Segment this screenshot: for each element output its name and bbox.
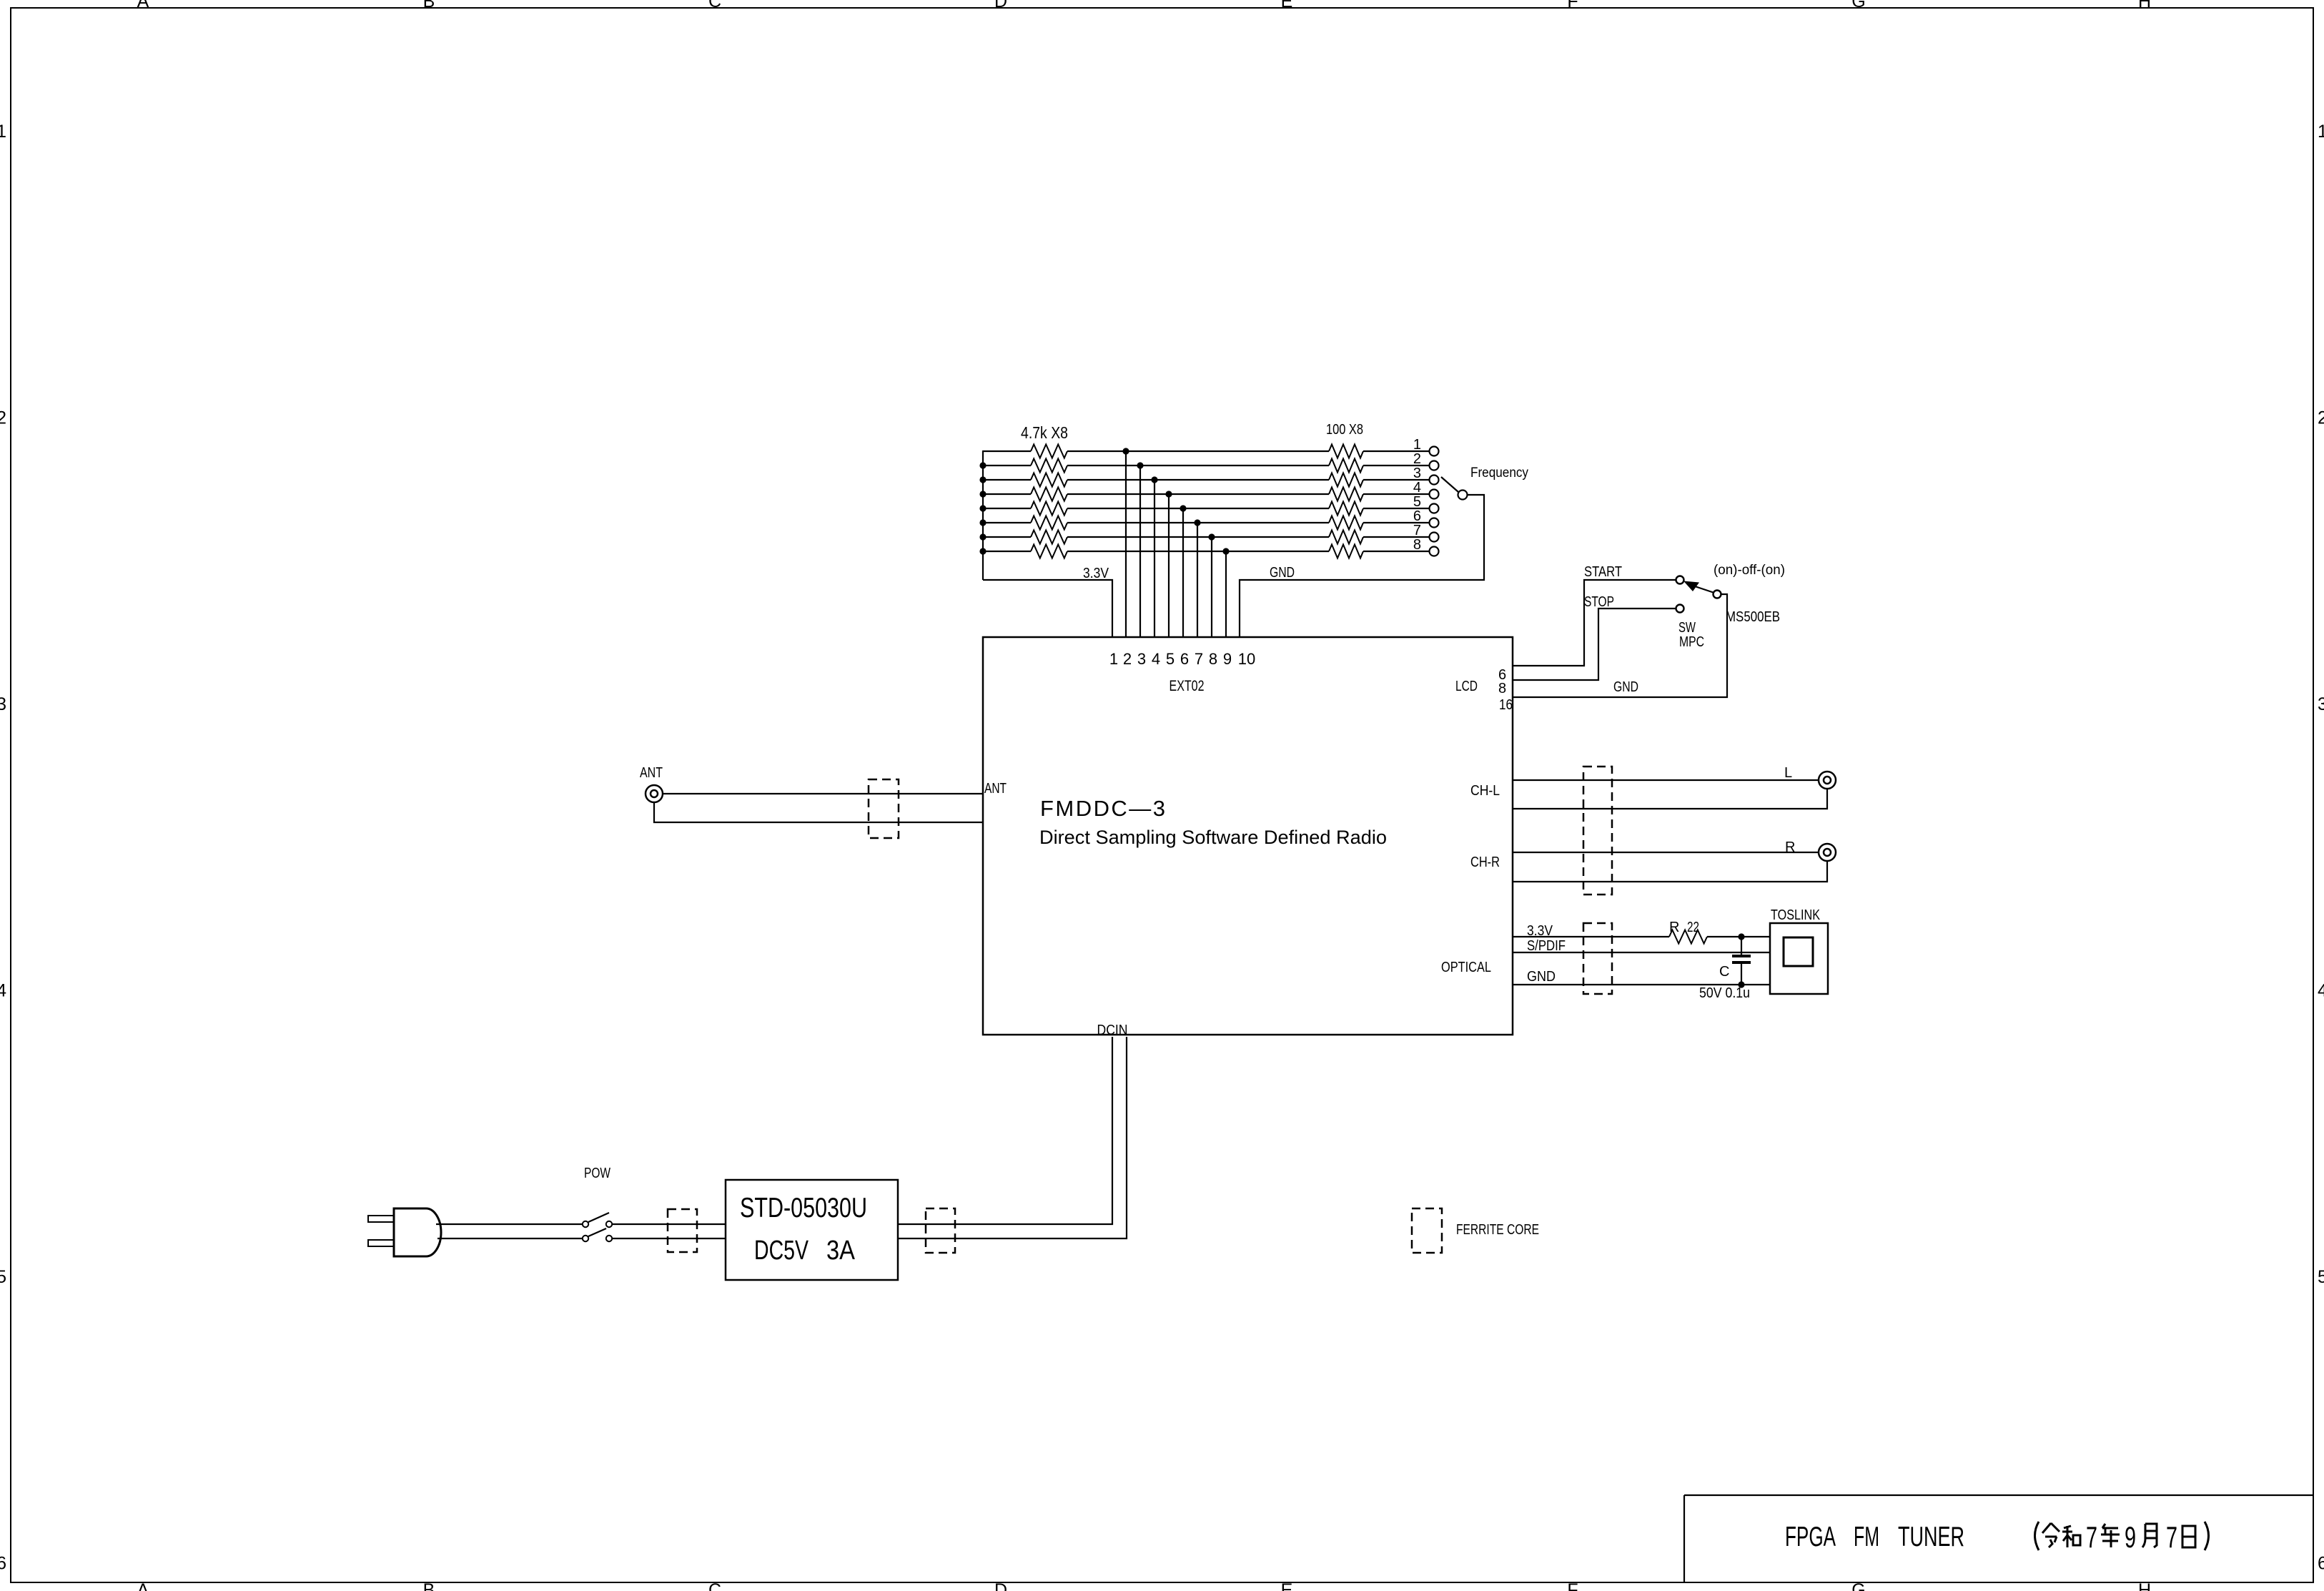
svg-text:4: 4 [0,981,6,1001]
wire row 1 middle [1067,450,1329,452]
wire row 5 middle [1067,508,1329,509]
switch SW3 POW pole1 [583,1213,612,1227]
label GND optical [1527,969,1556,985]
svg-text:GND: GND [1270,565,1295,581]
switch contact 6 circle [1430,518,1439,528]
wire GND EXT02 pin 10 to rotary common [1240,495,1484,637]
label START [1584,564,1622,580]
switch contact 1 circle [1430,447,1439,456]
svg-text:F: F [1567,1580,1578,1591]
svg-text:8: 8 [1209,650,1217,668]
label contact 4 [1413,480,1421,496]
svg-text:1: 1 [1109,650,1118,668]
svg-text:SW: SW [1678,620,1696,636]
label 50V 0.1u [1699,985,1750,1001]
resistor 100 #8 [1329,545,1363,558]
label R [1785,839,1795,855]
svg-text:FERRITE CORE: FERRITE CORE [1456,1222,1539,1238]
svg-text:10: 10 [1238,650,1255,668]
svg-text:MS500EB: MS500EB [1726,609,1780,625]
svg-text:3.3V: 3.3V [1527,923,1553,939]
svg-text:2: 2 [2318,408,2324,428]
wire row 3 right lead [1363,479,1430,481]
svg-text:B: B [423,0,435,11]
wire EXT02 pin 9 vertical [1225,551,1227,637]
svg-text:E: E [1281,0,1293,11]
wire row 3 left lead [983,479,1031,481]
svg-text:D: D [994,0,1007,11]
svg-text:3: 3 [1137,650,1146,668]
svg-text:CH-R: CH-R [1470,854,1500,870]
svg-text:H: H [2138,1580,2151,1591]
switch SW2 lever and arrow [1683,581,1721,599]
label EXT02 [1170,678,1205,694]
label L [1784,765,1792,781]
junction dots on 3.3V bus [979,462,986,554]
label 3.3V optical [1527,923,1553,939]
svg-text:R: R [1785,839,1795,855]
svg-text:L: L [1784,765,1792,781]
wire LCD6 to START [1513,580,1676,666]
wire row 4 right lead [1363,493,1430,495]
svg-text:D: D [994,1580,1007,1591]
wire row 6 right lead [1363,522,1430,523]
svg-text:Direct Sampling Software Defin: Direct Sampling Software Defined Radio [1039,827,1387,848]
wire ANT signal [663,793,983,794]
connector J1 ANT jack [646,785,663,802]
label pin OPTICAL [1441,960,1491,975]
svg-text:F: F [1567,0,1578,11]
wire row 5 right lead [1363,508,1430,509]
wire EXT02 pin 5 vertical [1168,494,1170,637]
svg-text:H: H [2138,0,2151,11]
module U1 FMDDC-3 box [983,637,1513,1035]
svg-text:7: 7 [2166,1520,2177,1554]
wire row 6 left lead [983,522,1031,523]
wire 3.3V bus vertical [982,450,984,580]
svg-text:DC5V: DC5V [754,1236,809,1266]
label Direct Sampling Software Defined Radio [1039,827,1387,848]
switch contact 7 circle [1430,533,1439,542]
svg-text:OPTICAL: OPTICAL [1441,960,1491,975]
label pin CH-L [1470,783,1500,799]
svg-text:1: 1 [0,122,6,142]
switch contact 8 circle [1430,547,1439,556]
svg-text:6: 6 [1413,508,1421,524]
resistor 4.7k #8 [1031,545,1067,558]
label Frequency [1470,466,1528,481]
resistor 4.7k #2 [1031,459,1067,473]
svg-text:STD-05030U: STD-05030U [740,1193,867,1223]
ferrite core audio [1583,767,1612,895]
resistor 4.7k #6 [1031,516,1067,530]
label C [1719,964,1729,980]
resistor 100 #5 [1329,502,1363,516]
junction node row 1 [1122,448,1129,454]
svg-text:B: B [423,1580,435,1591]
label LCD pin 6 [1498,667,1506,683]
svg-text:5: 5 [1166,650,1175,668]
svg-text:S/PDIF: S/PDIF [1527,938,1566,954]
wire LCD16 GND to switch common [1513,594,1727,697]
label pin LCD [1455,679,1478,694]
wire EXT02 pin 8 vertical [1211,537,1212,637]
svg-text:2: 2 [1413,451,1421,467]
svg-text:ANT: ANT [640,765,663,781]
junction node 3.3V cap [1738,933,1744,940]
label contact 6 [1413,508,1421,524]
connector J3 R jack [1819,844,1836,861]
label STD-05030U [740,1193,867,1223]
svg-text:CH-L: CH-L [1470,783,1500,799]
label EXT02 pin numbers 1-10 [1109,650,1255,668]
wire EXT02 pin 4 vertical [1154,480,1155,637]
wire row 5 left lead [983,508,1031,509]
label contact 8 [1413,537,1421,553]
wire row 8 left lead [983,551,1031,552]
svg-text:Frequency: Frequency [1470,466,1528,481]
label ANT connector [640,765,663,781]
label FERRITE CORE [1456,1222,1539,1238]
switch contact 4 circle [1430,490,1439,499]
connector P1 AC plug [368,1208,441,1256]
svg-text:9: 9 [1223,650,1232,668]
label date (Reiwa 7-9-7) [2035,1520,2209,1554]
capacitor C 50V 0.1u [1732,937,1751,985]
label (on)-off-(on) [1714,563,1785,578]
svg-text:22: 22 [1687,920,1699,935]
switch contact 3 circle [1430,476,1439,485]
label pin CH-R [1470,854,1500,870]
svg-text:6: 6 [1180,650,1189,668]
svg-text:16: 16 [1499,697,1513,713]
wire 3.3V to EXT02 pin 1 [983,580,1112,637]
svg-text:FMDDC—3: FMDDC—3 [1040,796,1165,821]
wire 3.3V optical left [1513,936,1669,937]
wire row 8 right lead [1363,551,1430,552]
svg-text:6: 6 [2318,1554,2324,1574]
wire row 8 middle [1067,551,1329,552]
label DC5V 3A [754,1236,856,1266]
label contact 2 [1413,451,1421,467]
svg-text:R: R [1669,920,1679,935]
junction node row 8 [1222,548,1229,554]
wire CH-R signal [1513,852,1819,853]
svg-text:MPC: MPC [1679,634,1704,650]
svg-text:2: 2 [0,408,6,428]
label STOP [1584,594,1614,610]
svg-text:1: 1 [1413,437,1421,453]
svg-text:C: C [708,0,721,11]
svg-text:FPGA: FPGA [1785,1522,1836,1552]
wire DC5V minus [898,1037,1127,1238]
svg-text:ANT: ANT [984,781,1007,797]
resistor 4.7k #7 [1031,531,1067,544]
label contact 7 [1413,523,1421,538]
junction node row 2 [1137,462,1143,468]
wire row 2 middle [1067,465,1329,466]
svg-text:3.3V: 3.3V [1083,566,1109,581]
label SW MPC [1678,620,1704,650]
svg-text:3: 3 [2318,694,2324,714]
switch SW3 POW pole2 [583,1228,612,1241]
switch contact 2 circle [1430,461,1439,471]
svg-text:5: 5 [1413,494,1421,510]
label pin DCIN [1097,1023,1128,1038]
junction node row 7 [1208,533,1215,540]
svg-text:4: 4 [2318,981,2324,1001]
label GND switch [1613,679,1638,695]
rotary switch SW1 wiper [1441,477,1468,500]
svg-text:9: 9 [2125,1520,2136,1554]
svg-text:LCD: LCD [1455,679,1478,694]
resistor R 22 [1669,930,1707,944]
label pin ANT [984,781,1007,797]
wire row 6 middle [1067,522,1329,523]
wire row 1 right lead [1363,450,1430,452]
svg-text:A: A [137,1580,149,1591]
label R 22 [1669,920,1699,935]
wire row 7 middle [1067,536,1329,538]
junction node GND cap [1738,981,1744,987]
wire row 7 right lead [1363,536,1430,538]
label LCD pin 8 [1498,681,1506,696]
svg-text:4: 4 [1152,650,1160,668]
wire row 1 left lead [983,450,1031,452]
svg-text:EXT02: EXT02 [1170,678,1205,694]
ferrite core DC [926,1208,955,1253]
power supply PS1 box [726,1180,898,1280]
label TOSLINK [1771,907,1821,923]
wire AC bottom left [437,1238,583,1239]
svg-text:TUNER: TUNER [1898,1522,1964,1552]
svg-text:START: START [1584,564,1622,580]
resistor 100 #6 [1329,516,1363,530]
connector J4 TOSLINK [1770,923,1828,994]
svg-text:8: 8 [1498,681,1506,696]
svg-text:3A: 3A [826,1236,856,1266]
title block box [1684,1495,2313,1582]
svg-text:E: E [1281,1580,1293,1591]
wire SPDIF signal [1513,952,1770,953]
wire optical GND [1513,984,1770,985]
wire row 4 middle [1067,493,1329,495]
label contact 5 [1413,494,1421,510]
wire row 2 right lead [1363,465,1430,466]
label MS500EB [1726,609,1780,625]
svg-text:7: 7 [1195,650,1203,668]
svg-text:7: 7 [2086,1520,2097,1554]
wire row 7 left lead [983,536,1031,538]
label GND top [1270,565,1295,581]
junction node row 5 [1180,505,1186,511]
wire EXT02 pin 2 vertical [1125,451,1127,637]
wire AC top left [436,1223,583,1225]
wire CH-L signal [1513,779,1819,781]
wire EXT02 pin 3 vertical [1139,466,1141,637]
label POW [584,1166,610,1181]
svg-text:2: 2 [1123,650,1132,668]
svg-text:A: A [137,0,149,11]
resistor 100 #3 [1329,473,1363,487]
wire EXT02 pin 6 vertical [1182,508,1184,637]
ferrite core legend symbol [1412,1208,1442,1253]
svg-text:FM: FM [1854,1522,1879,1552]
wire LCD8 to STOP [1513,609,1676,680]
junction node row 4 [1165,491,1172,497]
resistor 4.7k #5 [1031,502,1067,516]
svg-text:100 X8: 100 X8 [1326,422,1363,438]
svg-text:C: C [1719,964,1729,980]
svg-text:TOSLINK: TOSLINK [1771,907,1821,923]
resistor 4.7k #1 [1031,445,1067,458]
svg-text:7: 7 [1413,523,1421,538]
ferrite core optical [1583,923,1612,994]
switch SW2 START contact [1676,576,1684,584]
label FMDDC-3 [1040,796,1165,821]
svg-text:DCIN: DCIN [1097,1023,1128,1038]
resistor 100 #2 [1329,459,1363,473]
svg-text:1: 1 [2318,122,2324,142]
switch contact 5 circle [1430,504,1439,513]
wire 3.3V optical right [1707,936,1770,937]
wire EXT02 pin 7 vertical [1197,523,1198,637]
svg-text:C: C [708,1580,721,1591]
connector J2 L jack [1819,772,1836,789]
wire AC top right [612,1223,726,1225]
label contact 3 [1413,466,1421,481]
svg-text:3: 3 [1413,466,1421,481]
switch SW2 STOP contact [1676,605,1684,613]
svg-text:G: G [1851,0,1865,11]
wire ANT return [654,802,983,822]
resistor 100 #7 [1329,531,1363,544]
ferrite core AC [668,1209,697,1252]
svg-text:8: 8 [1413,537,1421,553]
svg-text:GND: GND [1613,679,1638,695]
svg-text:4: 4 [1413,480,1421,496]
svg-text:6: 6 [0,1554,6,1574]
svg-text:4.7k X8: 4.7k X8 [1021,423,1068,442]
svg-text:POW: POW [584,1166,610,1181]
svg-text:50V 0.1u: 50V 0.1u [1699,985,1750,1001]
label S/PDIF [1527,938,1566,954]
svg-text:5: 5 [2318,1267,2324,1287]
resistor 100 #1 [1329,445,1363,458]
wire row 4 left lead [983,493,1031,495]
svg-text:STOP: STOP [1584,594,1614,610]
wire row 3 middle [1067,479,1329,481]
label 3.3V [1083,566,1109,581]
junction node row 3 [1151,476,1157,483]
resistor 100 #4 [1329,488,1363,501]
wire AC bottom right [612,1238,726,1239]
svg-text:(on)-off-(on): (on)-off-(on) [1714,563,1785,578]
svg-text:5: 5 [0,1267,6,1287]
label 4.7k X8 [1021,423,1068,442]
label 100 X8 [1326,422,1363,438]
wire CH-R return [1513,861,1827,882]
svg-text:GND: GND [1527,969,1556,985]
ferrite core ANT [869,779,899,838]
label contact 1 [1413,437,1421,453]
wire row 2 left lead [983,465,1031,466]
resistor 4.7k #3 [1031,473,1067,487]
wire CH-L return [1513,789,1827,809]
svg-text:G: G [1851,1580,1865,1591]
label LCD pin 16 [1499,697,1513,713]
label FPGA FM TUNER [1785,1522,1964,1552]
wire DC5V plus [898,1037,1112,1224]
svg-text:3: 3 [0,694,6,714]
resistor 4.7k #4 [1031,488,1067,501]
junction node row 6 [1194,519,1200,526]
